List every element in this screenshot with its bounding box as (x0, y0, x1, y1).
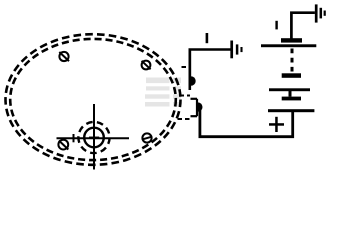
screw S4 (bottom left) (58, 140, 68, 150)
battery plate P6 (long) (268, 109, 314, 112)
centerline tick (73, 134, 75, 142)
horizontal centerline (57, 137, 130, 139)
terminal T1 post (189, 50, 192, 91)
screw S3 (bottom right) (142, 133, 152, 142)
terminal T1 contact bump (191, 76, 196, 85)
connector stub (dashed, lower) (178, 118, 191, 120)
ground G2 (316, 4, 325, 22)
battery GB label I (negative mark) (275, 21, 277, 30)
connector stub (dashed, middle) (180, 95, 191, 97)
wire W1 (T1 up and right to ground) (190, 50, 231, 77)
battery plate P1 (short) (281, 38, 302, 42)
pin label I (terminal 1) (206, 33, 209, 43)
terminal T2 frame (191, 99, 198, 116)
battery plate P3 (short) (282, 73, 301, 78)
bearing center mark: outer dashed circle (78, 122, 109, 153)
screw S1 (top left) (59, 52, 69, 61)
vertical centerline (93, 104, 95, 170)
battery dashed stem (291, 49, 294, 72)
wire to ground G2 (battery top) (291, 13, 315, 39)
battery plus label (269, 117, 284, 132)
ground G1 (232, 41, 242, 59)
watermark (faint gray logo block) (145, 78, 181, 107)
housing inner dashed ellipse (10, 39, 176, 160)
terminal T2 contact bump (198, 102, 203, 111)
battery plate P2 (long) (261, 44, 316, 47)
housing outer dashed ellipse (6, 34, 181, 165)
wire W2 (battery plus down, left, up to T2) (200, 109, 293, 137)
screw S2 (top right) (142, 61, 151, 70)
battery plate P4 (long) (269, 88, 310, 91)
battery plate P5 (short) (282, 97, 301, 101)
bearing center cross (89, 132, 99, 142)
connector stub (dashed, upper) (182, 66, 190, 68)
bearing center mark: inner circle (84, 128, 104, 148)
battery stem P4-P5 (289, 91, 292, 97)
